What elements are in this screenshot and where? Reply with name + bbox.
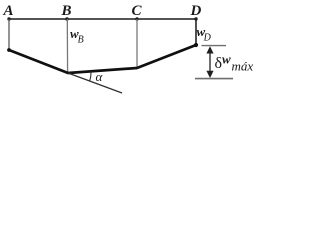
- dimension tick top: [202, 45, 227, 47]
- beam top chord A-D: [9, 18, 196, 20]
- svg-text:A: A: [3, 3, 14, 19]
- svg-text:w: w: [222, 52, 231, 67]
- angle arc alpha: [90, 71, 91, 81]
- dimension arrowhead up: [206, 46, 213, 53]
- svg-text:D: D: [190, 3, 202, 19]
- deflected node D' dot: [194, 43, 198, 47]
- svg-text:wD: wD: [197, 24, 212, 44]
- svg-text:C: C: [132, 3, 143, 19]
- displacement line at B: [66, 19, 68, 73]
- displacement line at C: [136, 19, 138, 68]
- node D dot: [194, 17, 197, 20]
- displacement line at A: [8, 19, 10, 50]
- deflected node A' dot: [7, 48, 11, 52]
- displacement line at D: [195, 19, 197, 45]
- deflected shape polyline A'-B'-C'-D': [9, 45, 196, 73]
- svg-text:B: B: [61, 3, 72, 19]
- svg-text:α: α: [96, 69, 104, 84]
- svg-text:δ: δ: [215, 55, 223, 72]
- node C dot: [135, 17, 138, 20]
- dimension arrowhead down: [206, 71, 213, 78]
- dimension tick bottom: [195, 78, 233, 80]
- tangent line at B': [68, 73, 122, 93]
- svg-text:máx: máx: [232, 59, 254, 74]
- dimension arrow stem: [209, 50, 211, 74]
- node B dot: [65, 17, 68, 20]
- svg-text:wB: wB: [70, 26, 84, 46]
- node A dot: [7, 17, 10, 20]
